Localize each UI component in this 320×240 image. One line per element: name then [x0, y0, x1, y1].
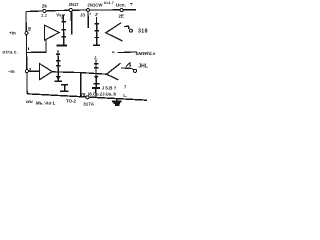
- svg-text:+In: +In: [9, 30, 16, 35]
- svg-text:J 5.B ?: J 5.B ?: [102, 85, 117, 90]
- svg-text:otra.c.: otra.c.: [2, 50, 18, 55]
- svg-text:U=1.7: U=1.7: [104, 1, 114, 5]
- svg-text:–In: –In: [8, 69, 15, 74]
- svg-text:318: 318: [138, 28, 148, 34]
- svg-text:Ucn.: Ucn.: [116, 3, 126, 8]
- svg-text:J’: J’: [95, 12, 99, 17]
- svg-text:2.2: 2.2: [41, 13, 47, 18]
- svg-text:78: 78: [81, 92, 86, 97]
- svg-text:JHL: JHL: [138, 63, 147, 69]
- svg-text:J,: J,: [94, 55, 98, 60]
- svg-text:2E: 2E: [118, 13, 124, 18]
- svg-text:Mь.ʹAa·L: Mь.ʹAa·L: [36, 99, 56, 106]
- svg-text:2k: 2k: [42, 3, 48, 8]
- svg-text:TO-2: TO-2: [66, 98, 76, 103]
- svg-text:u,: u,: [112, 49, 116, 54]
- svg-text:317A: 317A: [83, 102, 95, 107]
- svg-text:J3: J3: [80, 13, 85, 18]
- svg-text:bMWhl.x: bMWhl.x: [136, 51, 156, 57]
- svg-text:2N17: 2N17: [69, 2, 80, 7]
- svg-text:L.: L.: [123, 93, 127, 98]
- svg-text:2N1CW: 2N1CW: [87, 2, 103, 7]
- svg-text:I8.Cu.2J.Ua..b: I8.Cu.2J.Ua..b: [88, 92, 117, 97]
- svg-text:wu: wu: [26, 100, 33, 105]
